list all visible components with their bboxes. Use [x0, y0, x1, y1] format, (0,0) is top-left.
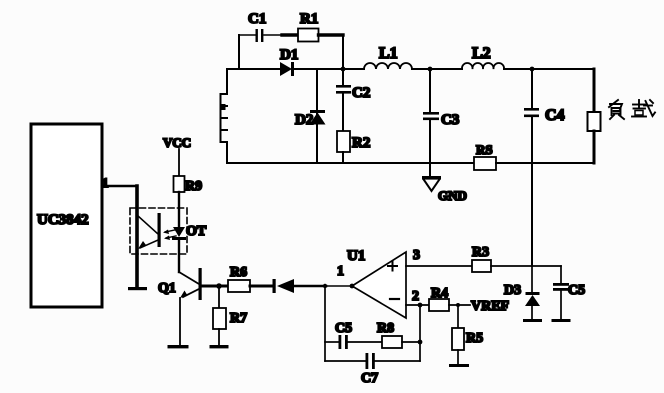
svg-text:C7: C7	[361, 371, 378, 386]
svg-text:R5: R5	[466, 331, 483, 346]
inductor L2	[462, 45, 504, 69]
resistor R6	[228, 265, 250, 292]
svg-text:R1: R1	[300, 11, 318, 27]
wire VCC to R9	[178, 149, 180, 176]
resistor R5	[452, 305, 483, 364]
capacitor C7	[325, 353, 420, 386]
svg-text:R6: R6	[230, 265, 247, 280]
resistor R1	[282, 11, 343, 42]
svg-text:1: 1	[337, 264, 344, 279]
capacitor C2	[336, 69, 370, 131]
wire pin3 to R3	[406, 265, 472, 267]
svg-text:C4: C4	[545, 107, 565, 124]
node feedback left junction	[323, 284, 327, 288]
inductor L1	[364, 45, 412, 69]
svg-text:C3: C3	[441, 112, 459, 128]
node C4 junction	[530, 67, 535, 72]
transistor Q1	[158, 268, 202, 345]
svg-text:OT: OT	[186, 224, 207, 239]
resistor R2	[337, 131, 370, 163]
wire L1 to L2	[412, 68, 462, 70]
svg-text:L1: L1	[379, 45, 398, 62]
wire R1 right drop to node	[342, 35, 344, 69]
ground R5	[449, 364, 469, 367]
capacitor C1	[239, 11, 282, 42]
svg-text:GND: GND	[438, 188, 467, 203]
wire R4 to VREF	[449, 304, 470, 306]
wire R6 to D4	[250, 285, 274, 288]
capacitor C4	[524, 69, 565, 163]
svg-text:R9: R9	[185, 179, 202, 194]
resistor R4	[429, 286, 449, 311]
svg-text:3: 3	[413, 248, 420, 263]
capacitor C3	[423, 69, 459, 176]
ground R7	[210, 345, 229, 348]
svg-text:D2: D2	[295, 112, 313, 128]
svg-text:Q1: Q1	[158, 281, 176, 296]
node R7 junction	[216, 283, 222, 289]
label 负载 (load)	[609, 100, 655, 119]
wire sense node vertical	[531, 163, 533, 266]
wire C1 left drop	[238, 35, 240, 69]
diode D1	[280, 47, 298, 76]
resistor R7	[213, 286, 247, 345]
svg-text:D1: D1	[280, 47, 298, 63]
svg-text:C5: C5	[335, 321, 352, 336]
capacitor C5	[552, 266, 586, 322]
wire Q1 base to R6	[202, 285, 228, 288]
diode D3	[504, 266, 542, 322]
svg-text:R8: R8	[377, 321, 394, 336]
svg-text:L2: L2	[472, 45, 491, 62]
wire L2 to right edge	[504, 68, 594, 70]
wire feedback right vertical	[419, 305, 421, 361]
wire R3 to sense node	[491, 265, 532, 267]
wire loop bottom	[227, 162, 474, 164]
svg-text:R7: R7	[230, 311, 247, 326]
wire pin2 to R4	[406, 304, 429, 306]
node pin2 feedback junction	[418, 303, 423, 308]
svg-text:C1: C1	[248, 11, 266, 27]
ground GND	[422, 176, 467, 203]
resistor R9	[174, 176, 203, 194]
wire top D1 to L1	[294, 68, 364, 70]
resistor R3	[472, 245, 491, 272]
svg-text:C2: C2	[352, 85, 370, 101]
svg-text:VREF: VREF	[471, 299, 509, 314]
svg-text:1: 1	[102, 175, 109, 190]
node R8 right junction	[418, 340, 423, 345]
svg-text:R4: R4	[431, 286, 448, 301]
svg-text:R2: R2	[352, 135, 370, 151]
chip UC3842	[31, 124, 102, 307]
svg-text:VCC: VCC	[163, 135, 191, 150]
svg-text:R3: R3	[472, 245, 489, 260]
node R5 junction	[456, 303, 460, 307]
svg-text:2: 2	[412, 289, 419, 304]
wire sense node to C5	[532, 265, 561, 267]
wire pin1 to optocoupler	[102, 185, 137, 188]
capacitor C6	[325, 321, 382, 349]
transformer winding T1	[221, 69, 228, 163]
wire feedback left vertical	[324, 286, 326, 361]
svg-text:C5: C5	[568, 283, 585, 298]
resistor R8	[377, 321, 420, 348]
load resistor	[588, 69, 601, 163]
optocoupler OT	[128, 186, 207, 290]
ground Q1 emitter	[168, 345, 189, 348]
wire D4 to op-amp output	[294, 285, 326, 288]
node C3 junction	[428, 67, 433, 72]
diode D4	[273, 279, 295, 293]
wire RS to right edge	[496, 162, 594, 164]
op-amp U1	[347, 248, 406, 318]
resistor RS	[474, 142, 496, 170]
svg-text:UC3842: UC3842	[37, 212, 89, 228]
node R1/C2 junction	[341, 67, 346, 72]
svg-text:U1: U1	[347, 248, 365, 264]
svg-text:RS: RS	[476, 142, 493, 157]
wire loop top left	[227, 68, 280, 70]
svg-text:D3: D3	[504, 283, 521, 298]
zener diode D2	[295, 69, 326, 163]
